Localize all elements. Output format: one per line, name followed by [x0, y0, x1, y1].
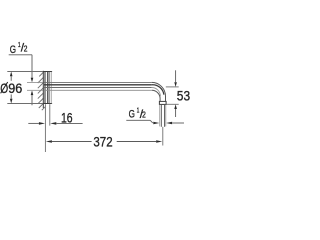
- svg-text:372: 372: [93, 135, 112, 150]
- arm pipe mid line: [44, 87, 152, 89]
- svg-text:G: G: [129, 109, 135, 121]
- svg-text:53: 53: [177, 89, 190, 104]
- flange boss: [49, 72, 51, 103]
- leader G1/2 bottom diagonal: [150, 120, 153, 123]
- dim 53 ext collar line: [166, 103, 178, 105]
- dim O96 line upper with up arrow: [10, 72, 13, 77]
- ext line pipe bottom left: [27, 89, 43, 91]
- wall hatch: [38, 72, 45, 110]
- dim O96 line lower with down arrow: [10, 94, 12, 98]
- dim 53 line lower with up arrow: [174, 104, 177, 109]
- bend shading band: [152, 85, 164, 95]
- dim 53 line upper with down arrow: [175, 70, 177, 82]
- arm pipe top edge: [44, 81, 152, 83]
- thread inner lines: [160, 105, 162, 127]
- dim 16 left arrow: [28, 122, 39, 124]
- wall line: [42, 71, 44, 108]
- svg-text:G: G: [10, 44, 16, 56]
- leader G1/2 vertical with down arrow to pipe top: [31, 55, 33, 79]
- thread outer lines: [159, 105, 161, 127]
- arm pipe bottom edge: [44, 89, 152, 91]
- label G1/2 top-left: [10, 40, 28, 56]
- dim 53 ext center line: [166, 86, 179, 88]
- dim 372 line right segment with right arrow: [117, 141, 157, 143]
- up arrow to pipe bottom: [31, 90, 34, 95]
- outlet centerline extension: [162, 127, 164, 146]
- bend outer: [152, 82, 166, 101]
- svg-text:2: 2: [142, 111, 146, 120]
- leader G1/2 top-left underline: [9, 54, 32, 56]
- collar nut: [159, 101, 166, 104]
- dim O96 ext top: [7, 71, 43, 73]
- leader G1/2 bottom underline: [126, 119, 150, 121]
- bend mid: [152, 88, 161, 97]
- thread right arrow: [166, 122, 172, 125]
- arm pipe shading band: [44, 84, 152, 86]
- dim O96 ext bottom: [7, 103, 43, 105]
- dim 372 line left segment with left arrow: [46, 140, 52, 143]
- escutcheon flange: [43, 72, 52, 104]
- dim 16 right arrow and leader: [50, 122, 56, 125]
- svg-text:2: 2: [24, 45, 28, 54]
- ext line pipe top left: [27, 81, 43, 83]
- bend inner: [152, 90, 160, 101]
- thread left arrow: [153, 122, 159, 125]
- svg-text:96: 96: [8, 81, 22, 96]
- label G1/2 bottom: [129, 106, 147, 121]
- dim 16 ext face line: [49, 104, 51, 125]
- svg-text:16: 16: [61, 110, 73, 125]
- dim 16 ext wall line: [44, 104, 46, 152]
